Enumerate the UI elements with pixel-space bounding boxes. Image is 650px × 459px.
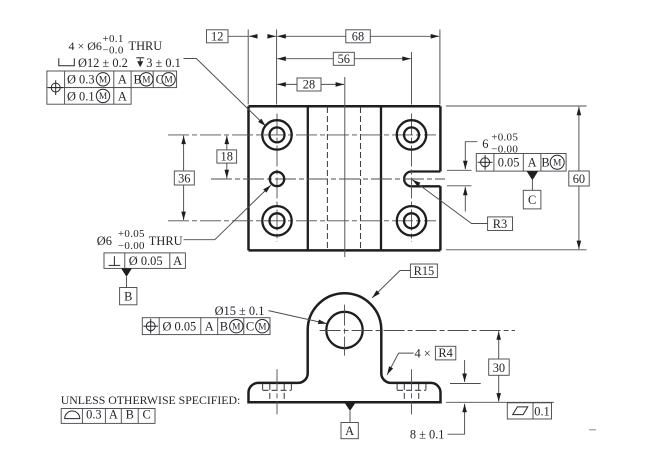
leader to counterbored hole	[184, 59, 266, 127]
dimension 28	[277, 78, 344, 92]
dimension 60	[569, 107, 589, 249]
svg-text:Ø 0.3: Ø 0.3	[67, 73, 95, 87]
svg-text:A: A	[109, 408, 118, 422]
slot width text 6 +0.05/-0.00	[482, 132, 518, 156]
extension line base top right	[450, 383, 481, 385]
svg-text:C: C	[156, 73, 164, 87]
feature control frame perpendicularity	[104, 253, 185, 269]
feature control frame flatness	[507, 403, 551, 419]
center line row top	[168, 134, 436, 136]
svg-text:B: B	[220, 320, 228, 334]
svg-text:Ø 0.05: Ø 0.05	[163, 320, 197, 334]
svg-text:18: 18	[221, 150, 233, 164]
feature control frame profile of surface	[61, 408, 155, 424]
svg-text:THRU: THRU	[149, 234, 183, 248]
hidden line left	[326, 107, 328, 250]
svg-text:M: M	[99, 76, 108, 86]
center line vertical middle	[344, 77, 346, 257]
counterbored hole bottom-left	[262, 206, 291, 235]
svg-text:THRU: THRU	[129, 39, 163, 53]
extension line base bottom right	[446, 401, 554, 403]
note Ø6 THRU	[97, 228, 183, 252]
hidden counterbore right	[397, 384, 426, 401]
slot	[404, 172, 440, 187]
svg-text:0.3: 0.3	[86, 408, 102, 422]
note 4 x Ø6 THRU	[69, 33, 163, 57]
counterbore note	[59, 56, 181, 70]
slot width leader top arrow	[465, 142, 477, 170]
svg-text:A: A	[205, 320, 214, 334]
svg-text:Ø 0.1: Ø 0.1	[67, 89, 95, 103]
note 4 x R4	[415, 346, 456, 360]
dimension 68	[277, 29, 439, 43]
feature control frame bore position	[142, 318, 270, 335]
svg-text:R4: R4	[438, 346, 452, 360]
center line front hole horizontal	[320, 330, 515, 332]
center line column right	[411, 114, 413, 243]
svg-text:C: C	[528, 193, 536, 207]
leader R15	[372, 271, 410, 298]
svg-text:R15: R15	[414, 264, 435, 278]
svg-text:12: 12	[211, 29, 223, 43]
front view bore hole	[326, 312, 362, 348]
svg-text:A: A	[118, 89, 127, 103]
svg-text:Ø12 ± 0.2: Ø12 ± 0.2	[78, 56, 128, 70]
leader R4	[387, 353, 414, 375]
dimension 8 arrows	[464, 360, 466, 382]
svg-text:M: M	[232, 322, 241, 332]
svg-text:UNLESS OTHERWISE SPECIFIED:: UNLESS OTHERWISE SPECIFIED:	[61, 393, 241, 407]
dimension 36	[174, 136, 194, 221]
svg-text:+0.05: +0.05	[118, 228, 145, 240]
extension line right edge top	[439, 30, 441, 105]
svg-text:M: M	[142, 76, 151, 86]
dimension 56	[277, 52, 411, 66]
svg-text:Ø6: Ø6	[97, 234, 112, 248]
center line right base hole	[411, 369, 413, 414]
svg-text:C: C	[246, 320, 254, 334]
svg-text:60: 60	[573, 172, 585, 186]
svg-text:3 ± 0.1: 3 ± 0.1	[146, 56, 181, 70]
page artifact dash	[589, 429, 596, 431]
svg-text:4 × Ø6: 4 × Ø6	[69, 39, 102, 53]
svg-text:−0.0: −0.0	[103, 45, 124, 57]
extension line right hole column top	[411, 52, 413, 105]
svg-text:−0.00: −0.00	[118, 240, 145, 252]
svg-text:56: 56	[338, 52, 350, 66]
center line front vertical	[344, 305, 346, 356]
top view plate outline	[249, 106, 441, 250]
svg-text:R3: R3	[493, 217, 507, 231]
svg-text:B: B	[124, 290, 132, 304]
top view inner edge left	[307, 106, 309, 250]
svg-text:C: C	[142, 408, 150, 422]
svg-text:M: M	[258, 322, 267, 332]
counterbored hole bottom-right	[397, 206, 426, 235]
hidden line right	[360, 107, 362, 250]
feature control frame slot position	[476, 154, 566, 172]
svg-text:B: B	[541, 156, 549, 170]
dimension 12	[207, 29, 276, 43]
svg-text:6: 6	[482, 137, 488, 151]
svg-text:+0.05: +0.05	[491, 132, 518, 144]
counterbored hole top-right	[397, 120, 426, 149]
svg-text:Ø15 ± 0.1: Ø15 ± 0.1	[215, 304, 265, 318]
svg-text:A: A	[345, 424, 354, 438]
svg-text:36: 36	[178, 172, 190, 186]
center line row bottom	[168, 220, 436, 222]
svg-text:M: M	[553, 159, 562, 169]
counterbored hole top-left	[262, 120, 291, 149]
datum C	[523, 171, 541, 209]
slot width leader bottom arrow	[464, 187, 466, 212]
small hole middle-left	[270, 172, 284, 186]
svg-text:0.1: 0.1	[534, 404, 550, 418]
label R15	[410, 264, 437, 278]
extension line slot bottom	[447, 185, 472, 187]
svg-text:+0.1: +0.1	[103, 33, 124, 45]
svg-text:B: B	[134, 73, 142, 87]
svg-text:M: M	[99, 92, 108, 102]
hidden counterbore left	[263, 384, 292, 401]
svg-text:A: A	[528, 156, 537, 170]
datum A	[341, 403, 358, 439]
feature control frame counterbore position (two rows)	[47, 71, 177, 104]
svg-text:68: 68	[352, 29, 364, 43]
center line column left	[276, 114, 278, 243]
top view inner edge right	[380, 106, 382, 250]
svg-text:0.05: 0.05	[498, 156, 520, 170]
svg-text:A: A	[173, 254, 182, 268]
dimension 30	[489, 331, 510, 401]
leader to small hole	[184, 185, 271, 240]
extension line left edge top	[247, 30, 249, 105]
front view outline	[249, 293, 441, 402]
svg-text:8 ± 0.1: 8 ± 0.1	[410, 428, 445, 442]
datum B	[120, 268, 137, 304]
extension line bottom edge right	[446, 249, 587, 251]
svg-text:Ø 0.05: Ø 0.05	[129, 254, 163, 268]
leader R3	[412, 180, 487, 224]
dimension 18	[217, 136, 237, 179]
leader Ø15	[269, 311, 327, 324]
svg-text:A: A	[118, 73, 127, 87]
extension line slot top	[447, 169, 472, 171]
svg-text:M: M	[164, 76, 173, 86]
extension line top edge right	[446, 105, 587, 107]
svg-text:30: 30	[493, 361, 505, 375]
svg-text:28: 28	[303, 78, 315, 92]
center line row middle	[211, 178, 445, 180]
center line left base hole	[276, 369, 278, 414]
svg-text:B: B	[126, 408, 134, 422]
extension line left hole column top	[276, 30, 278, 105]
svg-text:4 ×: 4 ×	[415, 347, 431, 361]
label R3	[488, 217, 513, 231]
